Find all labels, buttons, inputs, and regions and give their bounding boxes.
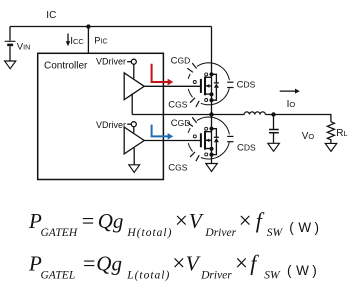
ground: under Co (268, 143, 280, 151)
svg-text:PIC: PIC (94, 35, 107, 45)
svg-text:=: = (82, 208, 94, 233)
ground: under Q2 (206, 164, 218, 172)
svg-text:SW: SW (267, 227, 284, 239)
node: Q2 drain (209, 127, 213, 131)
diode: Q1 body diode (212, 74, 219, 100)
wire: gate drive 1 (144, 85, 200, 87)
node: Q2 diode return (209, 153, 213, 157)
svg-text:VDriver: VDriver (96, 120, 126, 130)
svg-text:GATEH: GATEH (41, 227, 78, 239)
capacitor CDS2 (227, 136, 233, 141)
wire: battery bottom lead (9, 46, 11, 61)
svg-text:CDS: CDS (237, 142, 256, 153)
svg-text:CDS: CDS (237, 79, 256, 90)
ground: under RL (325, 143, 337, 151)
svg-text:ICC: ICC (70, 36, 84, 47)
svg-text:=: = (83, 250, 95, 275)
node: Q2 source (209, 147, 213, 151)
arrow Io (280, 89, 300, 94)
svg-text:): ) (312, 263, 317, 278)
ground: under driver 2 (129, 165, 140, 173)
equation P_GATEL (28, 250, 317, 281)
wire: gate drive 2 (144, 140, 200, 142)
svg-text:SW: SW (264, 269, 281, 281)
svg-text:CGD: CGD (171, 118, 191, 129)
node: Q1 source (209, 92, 213, 96)
node: switch node (209, 112, 213, 116)
wire: drain rail (211, 27, 213, 164)
ground: under battery (5, 61, 16, 69)
wire: battery top lead (9, 27, 11, 41)
svg-text:Driver: Driver (200, 269, 232, 281)
battery VIN (5, 41, 16, 45)
svg-text:L(total): L(total) (126, 269, 170, 281)
svg-text:f: f (256, 208, 265, 233)
svg-text:Qg: Qg (98, 209, 124, 233)
transistor Q1 (201, 77, 212, 96)
svg-text:VO: VO (302, 131, 315, 142)
pin: Q2 source mark (205, 153, 208, 156)
pin: Q1 source mark (205, 99, 208, 102)
capacitor CGS2 (190, 152, 199, 161)
transistor Q2 (201, 131, 212, 150)
capacitor CGD2 (187, 117, 196, 126)
node: top rail junction (86, 24, 90, 28)
equation P_GATEH (28, 208, 319, 239)
arrow ICC (66, 34, 70, 47)
node: Q1 drain (209, 72, 213, 76)
svg-text:VIN: VIN (17, 42, 30, 53)
svg-text:V: V (189, 209, 204, 233)
driver A2: buffer triangle (124, 127, 144, 154)
svg-text:W: W (296, 263, 309, 278)
svg-text:IO: IO (287, 99, 296, 110)
capacitor CGD1 (187, 63, 196, 72)
arrow: blue gate current (152, 125, 174, 140)
wire: top supply rail (10, 26, 212, 28)
capacitor Co (269, 130, 279, 133)
svg-text:H(total): H(total) (126, 227, 172, 239)
node: output node (271, 112, 275, 116)
svg-text:RL: RL (336, 128, 347, 139)
wire: driver 2 ground lead (133, 148, 135, 165)
svg-text:×: × (235, 250, 248, 275)
driver A1: buffer triangle (124, 73, 144, 100)
pin: Q2 drain mark (205, 127, 208, 130)
diode: Q2 body diode (212, 129, 219, 155)
arrow: red gate current (152, 64, 174, 86)
wire: PIC drop to controller (87, 27, 89, 54)
svg-text:×: × (239, 208, 252, 233)
svg-text:IC: IC (46, 10, 56, 21)
pin: Q1 gate mark (193, 81, 196, 84)
node: Q1 diode return (209, 98, 213, 102)
svg-text:CGD: CGD (171, 56, 191, 67)
svg-text:CGS: CGS (168, 99, 187, 110)
wire: driver 1 return to switch node (131, 94, 133, 115)
svg-text:VDriver: VDriver (96, 56, 126, 66)
pin: Q2 gate mark (193, 135, 196, 138)
driver A2: VDriver terminal (127, 122, 136, 133)
wire: cap top lead (273, 115, 275, 130)
svg-text:Driver: Driver (204, 227, 236, 239)
wire: inductor to RL (265, 115, 331, 122)
parasitic arcs Q1 (188, 63, 229, 105)
resistor RL (327, 122, 334, 144)
svg-text:): ) (315, 220, 320, 235)
svg-text:CGS: CGS (168, 162, 187, 173)
op-amp U1 box: controller (38, 53, 164, 179)
svg-text:GATEL: GATEL (41, 269, 76, 281)
svg-text:W: W (298, 220, 311, 235)
svg-text:Qg: Qg (96, 251, 122, 275)
wire: cap bottom lead (273, 133, 275, 144)
svg-text:V: V (186, 251, 201, 275)
parasitic arcs Q2 (188, 117, 229, 159)
capacitor CDS1 (227, 82, 233, 87)
capacitor CGS1 (190, 98, 199, 107)
svg-text:f: f (250, 250, 259, 275)
svg-text:×: × (175, 208, 188, 233)
inductor L1 (244, 112, 265, 115)
svg-text:(: ( (287, 263, 292, 278)
svg-text:×: × (172, 250, 185, 275)
pin: Q1 drain mark (205, 73, 208, 76)
svg-text:(: ( (289, 220, 294, 235)
svg-text:Controller: Controller (44, 61, 88, 72)
driver A1: VDriver terminal (127, 59, 136, 78)
wire: switch node to inductor (132, 114, 244, 116)
